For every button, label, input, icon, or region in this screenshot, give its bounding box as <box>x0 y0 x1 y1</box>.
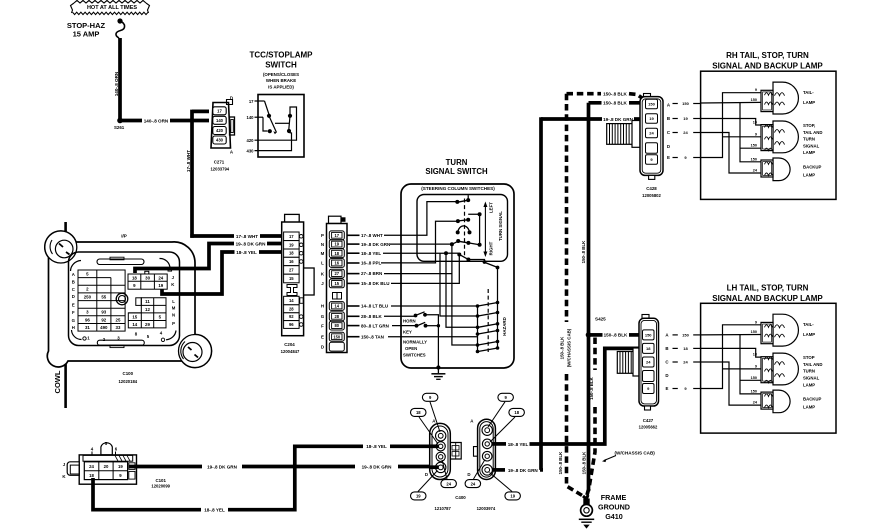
svg-text:30: 30 <box>145 275 150 280</box>
svg-text:14-.8 LT BLU: 14-.8 LT BLU <box>361 304 388 309</box>
svg-text:16: 16 <box>289 259 294 264</box>
svg-text:12005802: 12005802 <box>642 193 661 198</box>
svg-text:92: 92 <box>101 317 106 322</box>
svg-text:150-.8 BLK: 150-.8 BLK <box>603 101 627 106</box>
svg-text:19: 19 <box>683 116 688 121</box>
svg-text:12: 12 <box>145 307 150 312</box>
svg-text:28-.8 BLK: 28-.8 BLK <box>361 314 383 319</box>
svg-text:N: N <box>172 313 175 318</box>
svg-text:19: 19 <box>416 494 421 499</box>
svg-text:24: 24 <box>446 481 451 486</box>
svg-text:(OPENS/CLOSES: (OPENS/CLOSES <box>263 72 299 77</box>
svg-text:24: 24 <box>683 360 688 365</box>
svg-text:LAMP: LAMP <box>803 173 815 178</box>
svg-text:D: D <box>667 144 670 149</box>
svg-text:M: M <box>321 251 325 256</box>
svg-text:27: 27 <box>289 268 294 273</box>
svg-text:150: 150 <box>333 334 341 339</box>
svg-text:D: D <box>321 344 324 349</box>
svg-text:(W/CHASSIS CAB): (W/CHASSIS CAB) <box>566 328 571 367</box>
svg-text:14: 14 <box>289 298 294 303</box>
svg-text:96: 96 <box>289 322 294 327</box>
svg-text:15-.8 DK BLU: 15-.8 DK BLU <box>361 281 390 286</box>
svg-text:150: 150 <box>645 333 652 338</box>
svg-text:15: 15 <box>289 276 294 281</box>
svg-text:93: 93 <box>101 310 106 315</box>
svg-text:19: 19 <box>118 464 123 469</box>
svg-text:20: 20 <box>104 464 109 469</box>
svg-text:E: E <box>72 302 75 307</box>
svg-text:150-.8 BLK: 150-.8 BLK <box>589 376 594 400</box>
svg-text:H: H <box>72 325 75 330</box>
svg-text:C271: C271 <box>214 160 225 165</box>
svg-text:SWITCHES: SWITCHES <box>403 352 426 357</box>
svg-text:18: 18 <box>683 346 688 351</box>
svg-text:COWL: COWL <box>53 370 62 393</box>
svg-text:16: 16 <box>335 261 340 266</box>
svg-text:150-.8 BLK: 150-.8 BLK <box>558 451 563 475</box>
svg-text:C101: C101 <box>155 478 166 483</box>
svg-text:150: 150 <box>682 332 689 337</box>
svg-text:150: 150 <box>648 102 655 107</box>
svg-text:18-.8 YEL: 18-.8 YEL <box>366 444 387 449</box>
svg-text:D: D <box>72 294 75 299</box>
svg-text:BACKUP: BACKUP <box>803 165 822 170</box>
svg-text:19: 19 <box>753 121 757 125</box>
svg-text:G: G <box>321 314 325 319</box>
svg-text:150: 150 <box>751 98 757 102</box>
svg-text:18-.8 YEL: 18-.8 YEL <box>361 251 381 256</box>
svg-text:17: 17 <box>249 99 254 104</box>
svg-text:LAMP: LAMP <box>803 150 815 155</box>
svg-text:BACKUP: BACKUP <box>803 397 822 402</box>
svg-text:140-.8 ORN: 140-.8 ORN <box>144 118 169 123</box>
svg-text:B: B <box>667 116 670 121</box>
svg-text:140-.8 ORN: 140-.8 ORN <box>114 71 119 96</box>
svg-text:C427: C427 <box>643 418 654 423</box>
svg-text:9: 9 <box>755 320 757 324</box>
svg-text:150-.8 TAN: 150-.8 TAN <box>361 334 384 339</box>
svg-text:(STEERING COLUMN SWITCHES): (STEERING COLUMN SWITCHES) <box>421 186 495 191</box>
svg-text:17: 17 <box>217 109 222 114</box>
svg-text:IS APPLIED): IS APPLIED) <box>268 85 294 90</box>
svg-text:19-.8 DK GRN: 19-.8 DK GRN <box>207 464 238 469</box>
svg-text:55: 55 <box>101 294 106 299</box>
svg-text:11: 11 <box>145 299 150 304</box>
svg-text:C204: C204 <box>284 342 295 347</box>
svg-text:25: 25 <box>116 317 121 322</box>
svg-text:B: B <box>72 280 75 285</box>
svg-text:250: 250 <box>84 294 92 299</box>
svg-text:150-.8 BLK: 150-.8 BLK <box>559 336 564 360</box>
svg-text:HAZARD: HAZARD <box>502 317 507 336</box>
svg-text:18: 18 <box>646 346 651 351</box>
svg-text:140: 140 <box>216 118 224 123</box>
svg-text:D: D <box>665 373 668 378</box>
svg-text:12020184: 12020184 <box>118 379 137 384</box>
svg-text:S261: S261 <box>114 125 125 130</box>
svg-text:1210787: 1210787 <box>435 506 452 511</box>
svg-text:SIGNAL AND BACKUP LAMP: SIGNAL AND BACKUP LAMP <box>712 294 823 303</box>
svg-text:18: 18 <box>514 410 519 415</box>
svg-text:N: N <box>321 242 324 247</box>
svg-text:16-.8 PPL: 16-.8 PPL <box>361 261 382 266</box>
svg-text:430: 430 <box>247 149 255 154</box>
svg-text:9: 9 <box>755 88 757 92</box>
svg-text:RIGHT: RIGHT <box>488 241 493 255</box>
svg-text:28: 28 <box>289 306 294 311</box>
svg-text:19-.8 DK GRN: 19-.8 DK GRN <box>603 117 634 122</box>
svg-text:19-.8 DK GRN: 19-.8 DK GRN <box>508 468 539 473</box>
svg-text:(W/CHASSIS CAB): (W/CHASSIS CAB) <box>615 451 656 456</box>
svg-text:24: 24 <box>89 464 94 469</box>
svg-text:M: M <box>172 306 176 311</box>
svg-text:18: 18 <box>132 275 137 280</box>
svg-text:150: 150 <box>751 330 757 334</box>
svg-text:SIGNAL SWITCH: SIGNAL SWITCH <box>425 167 488 176</box>
svg-text:NORMALLY: NORMALLY <box>403 339 427 344</box>
svg-text:LAMP: LAMP <box>803 382 815 387</box>
svg-text:15: 15 <box>132 314 137 319</box>
svg-text:S425: S425 <box>595 316 606 321</box>
svg-text:17-.8 WHT: 17-.8 WHT <box>361 233 383 238</box>
svg-text:L: L <box>172 299 175 304</box>
svg-text:19: 19 <box>289 242 294 247</box>
svg-text:18: 18 <box>753 353 757 357</box>
svg-text:B: B <box>665 346 668 351</box>
svg-text:17: 17 <box>335 233 340 238</box>
svg-text:TURN: TURN <box>446 158 468 167</box>
svg-text:SIGNAL: SIGNAL <box>803 376 820 381</box>
svg-text:H: H <box>321 304 324 309</box>
svg-text:SIGNAL AND BACKUP LAMP: SIGNAL AND BACKUP LAMP <box>712 61 823 70</box>
svg-text:12005662: 12005662 <box>639 425 658 430</box>
svg-text:150: 150 <box>751 376 757 380</box>
svg-text:19-.8 DK GRN: 19-.8 DK GRN <box>236 241 267 246</box>
svg-text:C400: C400 <box>455 495 466 500</box>
svg-text:29: 29 <box>145 322 150 327</box>
svg-text:TAIL-: TAIL- <box>803 90 814 95</box>
svg-text:420: 420 <box>216 128 224 133</box>
svg-text:14: 14 <box>132 322 137 327</box>
svg-text:18-.8 YEL: 18-.8 YEL <box>236 250 257 255</box>
svg-text:18: 18 <box>89 473 94 478</box>
svg-text:80: 80 <box>335 323 340 328</box>
svg-text:19: 19 <box>510 494 515 499</box>
svg-text:12004847: 12004847 <box>281 349 300 354</box>
svg-text:C: C <box>72 287 75 292</box>
svg-text:STOP: STOP <box>803 355 815 360</box>
svg-text:A: A <box>72 272 75 277</box>
svg-text:GROUND: GROUND <box>598 503 630 512</box>
svg-text:17: 17 <box>289 234 294 239</box>
svg-text:9: 9 <box>755 132 757 136</box>
svg-text:15: 15 <box>335 281 340 286</box>
svg-text:31: 31 <box>85 325 90 330</box>
svg-text:F: F <box>321 323 324 328</box>
svg-text:KEY: KEY <box>403 330 412 335</box>
svg-text:18: 18 <box>335 251 340 256</box>
svg-text:17-.8 WHT: 17-.8 WHT <box>186 150 191 172</box>
svg-text:LH TAIL, STOP, TURN: LH TAIL, STOP, TURN <box>727 284 809 293</box>
svg-text:SIGNAL: SIGNAL <box>803 143 820 148</box>
svg-text:LAMP: LAMP <box>803 405 815 410</box>
svg-text:D: D <box>467 472 470 477</box>
svg-text:I/P: I/P <box>121 233 127 238</box>
svg-text:FRAME: FRAME <box>601 493 627 502</box>
svg-text:HOT AT ALL TIMES: HOT AT ALL TIMES <box>87 5 137 11</box>
svg-text:F: F <box>72 310 75 315</box>
svg-text:18: 18 <box>289 251 294 256</box>
svg-text:24: 24 <box>649 131 654 136</box>
svg-text:140: 140 <box>247 115 255 120</box>
svg-text:D: D <box>230 96 233 101</box>
svg-text:SWITCH: SWITCH <box>265 61 297 70</box>
svg-text:18-.8 YEL: 18-.8 YEL <box>508 442 529 447</box>
svg-text:TAIL-: TAIL- <box>803 322 814 327</box>
svg-text:24: 24 <box>158 275 163 280</box>
svg-text:RH TAIL, STOP, TURN: RH TAIL, STOP, TURN <box>726 51 809 60</box>
svg-text:17-.8 WHT: 17-.8 WHT <box>236 234 258 239</box>
svg-text:C100: C100 <box>123 371 134 376</box>
svg-text:12003974: 12003974 <box>477 506 496 511</box>
svg-text:19: 19 <box>649 116 654 121</box>
svg-text:E: E <box>666 386 669 391</box>
svg-text:28: 28 <box>335 314 340 319</box>
svg-text:150-.8 BLK: 150-.8 BLK <box>604 333 628 338</box>
svg-text:96: 96 <box>85 317 90 322</box>
svg-text:27: 27 <box>335 271 340 276</box>
svg-text:27-.8 BRN: 27-.8 BRN <box>361 271 382 276</box>
svg-text:150-.8 BLK: 150-.8 BLK <box>603 92 627 97</box>
svg-text:OPEN: OPEN <box>405 346 417 351</box>
svg-text:14: 14 <box>335 304 340 309</box>
svg-text:19: 19 <box>158 283 163 288</box>
svg-text:TURN: TURN <box>803 369 815 374</box>
svg-text:150: 150 <box>751 389 757 393</box>
svg-text:TURN SIGNAL: TURN SIGNAL <box>498 211 503 241</box>
svg-text:24: 24 <box>646 360 651 365</box>
svg-text:92: 92 <box>289 314 294 319</box>
svg-text:150: 150 <box>682 101 689 106</box>
svg-text:430: 430 <box>216 138 224 143</box>
svg-text:12020099: 12020099 <box>151 483 170 488</box>
svg-text:420: 420 <box>247 138 255 143</box>
svg-text:150: 150 <box>751 157 757 161</box>
svg-text:9: 9 <box>755 364 757 368</box>
svg-text:LAMP: LAMP <box>803 332 815 337</box>
svg-text:E: E <box>667 155 670 160</box>
svg-text:WHEN BRAKE: WHEN BRAKE <box>266 78 296 83</box>
svg-text:150-.8 BLK: 150-.8 BLK <box>581 240 586 264</box>
svg-text:19-.8 DK GRN: 19-.8 DK GRN <box>362 464 393 469</box>
svg-text:18-.8 YEL: 18-.8 YEL <box>204 508 225 513</box>
svg-text:33: 33 <box>116 325 121 330</box>
svg-text:STOP,: STOP, <box>803 123 815 128</box>
svg-text:LAMP: LAMP <box>803 100 815 105</box>
svg-text:19-.8 DK GRN: 19-.8 DK GRN <box>361 242 390 247</box>
svg-text:TAIL AND: TAIL AND <box>803 362 823 367</box>
svg-text:LEFT: LEFT <box>488 202 493 213</box>
svg-text:P: P <box>172 321 175 326</box>
svg-text:18: 18 <box>416 410 421 415</box>
svg-text:TCC/STOPLAMP: TCC/STOPLAMP <box>250 51 314 60</box>
svg-text:C428: C428 <box>646 186 657 191</box>
svg-text:19: 19 <box>335 242 340 247</box>
svg-text:P: P <box>321 233 324 238</box>
svg-text:HORN: HORN <box>403 319 416 324</box>
svg-text:D: D <box>425 472 428 477</box>
svg-text:TURN: TURN <box>803 137 815 142</box>
svg-text:80-.8 LT GRN: 80-.8 LT GRN <box>361 323 389 328</box>
svg-text:24: 24 <box>471 481 476 486</box>
svg-text:TAIL AND: TAIL AND <box>803 130 823 135</box>
svg-text:150: 150 <box>751 144 757 148</box>
svg-text:15 AMP: 15 AMP <box>73 30 100 39</box>
svg-text:L: L <box>321 261 324 266</box>
svg-text:12033794: 12033794 <box>210 166 229 171</box>
svg-text:G410: G410 <box>605 512 623 521</box>
svg-text:E: E <box>321 334 324 339</box>
svg-text:24: 24 <box>683 130 688 135</box>
svg-text:150-.8 BLK: 150-.8 BLK <box>582 451 587 475</box>
svg-text:490: 490 <box>100 325 108 330</box>
